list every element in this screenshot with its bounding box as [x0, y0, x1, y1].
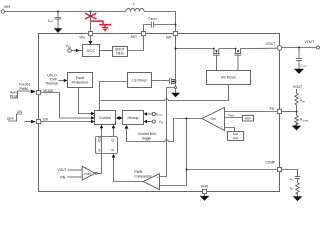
svg-text:CIN: CIN: [48, 19, 53, 24]
ground CIN: [54, 28, 62, 33]
svg-text:trigger: trigger: [142, 137, 152, 141]
block Hiccup: [123, 111, 144, 125]
transistor HS MOSFET Q1: [213, 48, 220, 71]
svg-text:Comparator: Comparator: [134, 174, 152, 178]
wire VIN to VCC arrow: [90, 36, 92, 42]
wire Control to LS Driver: [100, 82, 128, 111]
IC block outline: [39, 34, 280, 192]
wire HS rail SW to VOUT: [176, 48, 214, 50]
svg-text:start: start: [233, 136, 239, 140]
wire VCC to BOOT REG: [100, 50, 113, 52]
red capacitor annotation: [91, 21, 112, 27]
wire SW vertical rail: [175, 36, 177, 87]
node junction COMP branch: [185, 117, 187, 119]
block Soft start: [228, 132, 244, 141]
wire EN to Control: [41, 121, 92, 123]
svg-text:LS Driver: LS Driver: [132, 79, 147, 83]
arrow into Fault Protection: [59, 80, 64, 82]
wire latch Q to Control: [113, 128, 115, 137]
svg-text:PWM: PWM: [19, 87, 28, 91]
svg-text:VOUT: VOUT: [305, 40, 316, 44]
svg-text:TOFF: TOFF: [84, 172, 92, 176]
wire latch Qbar to Control with S line through: [101, 128, 103, 174]
svg-text:Q: Q: [98, 139, 101, 143]
wire Control to HS Driver with hop: [100, 85, 229, 101]
svg-text:COUT: COUT: [300, 63, 307, 68]
block VCC regulator: [83, 45, 100, 57]
terminal VIN: [1, 10, 4, 13]
svg-text:Q: Q: [111, 139, 114, 143]
block Control: [95, 111, 116, 125]
resistor RDOWN: [295, 115, 309, 126]
svg-text:REF: REF: [245, 117, 251, 121]
wire VCC arrow: [71, 50, 76, 52]
svg-text:L: L: [133, 2, 135, 6]
wire Fault Protection to Control: [79, 88, 92, 114]
inductor L: [126, 2, 144, 11]
ground GND pin: [200, 196, 210, 201]
wire COMP external: [282, 170, 298, 177]
capacitor CIN: [48, 12, 61, 29]
node junction COMP pin branch: [185, 168, 187, 170]
wire VIN rail: [4, 11, 126, 13]
svg-text:PWM: PWM: [134, 170, 142, 174]
svg-text:VOUT: VOUT: [293, 85, 302, 89]
svg-text:VIN: VIN: [79, 35, 85, 39]
svg-text:HS Driver: HS Driver: [221, 75, 237, 79]
resistor RC: [290, 183, 300, 196]
node junction SW/CBOOT: [174, 23, 176, 25]
capacitor COUT: [296, 48, 308, 69]
wire BOOT REG to BST: [128, 36, 144, 51]
svg-text:Fault: Fault: [76, 76, 84, 80]
pin MODE: [37, 91, 41, 95]
svg-text:OFF: OFF: [7, 117, 14, 121]
svg-text:-: -: [157, 185, 158, 189]
wire COMP vertical to PWM comparator: [160, 119, 187, 186]
pin GND: [202, 189, 206, 193]
svg-text:VOUT: VOUT: [57, 168, 66, 172]
svg-text:SW: SW: [166, 36, 172, 40]
one-shot TOFF: [82, 166, 95, 180]
wire MODE to Control: [41, 93, 92, 119]
node junction CIN: [57, 10, 59, 12]
svg-text:+: +: [156, 176, 158, 180]
wire TOFF inputs: [67, 169, 82, 171]
terminal VOUT: [316, 46, 319, 49]
wire COMP to pin: [187, 169, 278, 171]
resistor RUP: [295, 89, 306, 115]
wire FB: [282, 111, 297, 113]
node VOUT sense to Hiccup: [147, 113, 153, 115]
svg-text:VIN: VIN: [60, 175, 66, 179]
svg-text:EN: EN: [43, 117, 48, 121]
wire FB to error amp: [225, 111, 278, 113]
wire LS gate: [152, 80, 170, 82]
label UVLO OVP Thermal: [45, 74, 58, 86]
capacitor CBOOT: [144, 16, 176, 31]
wire soft start to error amp: [225, 128, 235, 132]
svg-text:Protection: Protection: [72, 81, 88, 85]
transistor HS MOSFET Q2: [235, 48, 242, 71]
svg-text:VIN: VIN: [4, 5, 11, 9]
svg-text:REG: REG: [116, 52, 124, 56]
wire VREF: [225, 117, 243, 119]
red ground annotation: [102, 28, 108, 31]
svg-text:GND: GND: [201, 184, 209, 188]
pin BST: [141, 32, 145, 36]
block REF: [243, 116, 254, 122]
capacitor CC: [290, 177, 301, 183]
pin VIN: [89, 32, 93, 36]
svg-text:RC: RC: [290, 186, 294, 191]
svg-text:Gm: Gm: [210, 117, 216, 121]
wire PWM comparator output to latch R: [114, 157, 144, 181]
pin FB: [277, 109, 281, 113]
svg-text:CBOOT: CBOOT: [148, 16, 157, 21]
pin SW: [173, 32, 177, 36]
op-amp Gm error amplifier: [202, 108, 225, 131]
wire TOFF to latch S: [97, 173, 101, 175]
ground LS source: [171, 93, 180, 97]
block LS Driver: [128, 73, 152, 88]
svg-text:Control: Control: [99, 116, 111, 120]
svg-text:BST: BST: [131, 35, 137, 39]
block Fault Protection: [68, 73, 93, 88]
svg-text:Thermal: Thermal: [45, 82, 58, 86]
block HS Driver: [207, 71, 251, 85]
wire MODE selector: [10, 91, 31, 98]
node junction FB: [295, 110, 297, 112]
node VIN sense to Hiccup: [147, 121, 153, 123]
ground RDOWN: [292, 126, 302, 131]
red cross-out X annotation: [85, 13, 97, 19]
transistor LS MOSFET: [170, 78, 177, 85]
node junction VIN-pin: [89, 10, 91, 12]
pin COMP: [277, 167, 281, 171]
comparator PWM: [143, 174, 159, 190]
svg-text:ON: ON: [17, 110, 23, 114]
wire Control-Hiccup bidirectional arrow: [118, 117, 120, 119]
pin EN: [37, 120, 41, 124]
terminal VCC: [68, 49, 72, 53]
svg-text:VCC: VCC: [87, 48, 96, 53]
ground COUT: [294, 69, 304, 74]
node LS source: [174, 86, 176, 88]
wire VOUT external: [282, 47, 317, 49]
node junction COUT: [298, 46, 300, 48]
wire current sense to PWM comparator: [160, 88, 175, 177]
svg-text:COMP: COMP: [265, 161, 276, 165]
svg-text:Hiccup: Hiccup: [128, 116, 139, 120]
svg-text:-: -: [221, 115, 222, 119]
block BOOT REG: [113, 47, 128, 57]
latch SR block: [96, 137, 118, 154]
pin VOUT: [277, 46, 282, 51]
svg-text:RUP: RUP: [300, 99, 306, 104]
svg-text:RDOWN: RDOWN: [300, 118, 309, 123]
wire EN selector switch: [8, 114, 22, 121]
svg-text:VOUT: VOUT: [266, 42, 275, 46]
svg-text:CC: CC: [290, 177, 294, 182]
ground RC: [293, 196, 303, 201]
wire VIN pin drop: [90, 12, 92, 32]
wire Gm output current limit trigger to Hiccup with hop: [127, 119, 202, 142]
svg-text:+: +: [221, 125, 223, 129]
